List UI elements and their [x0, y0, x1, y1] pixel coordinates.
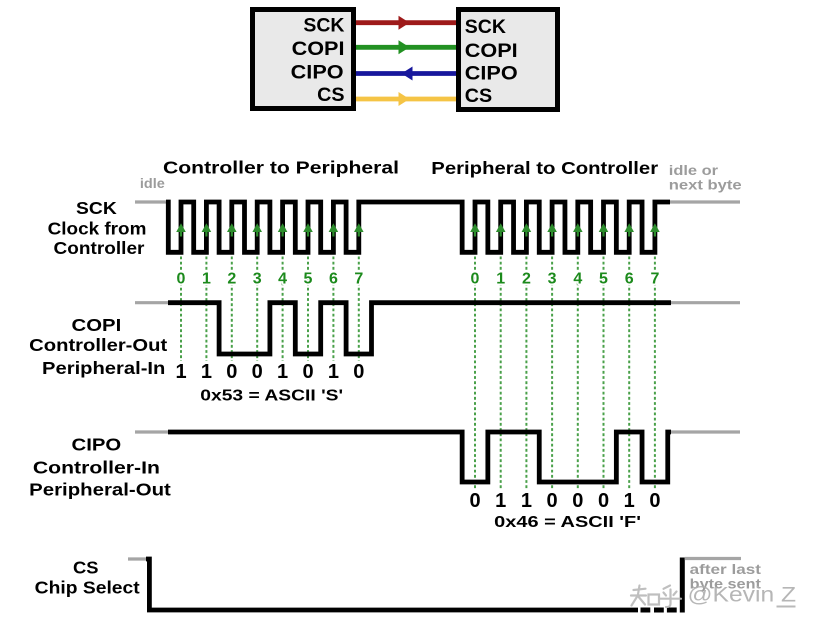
CIPO waveform 0x46 LSB-first: [168, 432, 671, 482]
svg-text:COPI: COPI: [292, 39, 345, 60]
svg-text:1: 1: [202, 270, 211, 287]
clock sample dashed lines byte 1: [181, 257, 359, 362]
CS low dashed continuation: [641, 608, 677, 613]
wire CIPO peripheral to controller (navy arrow, points left): [356, 71, 456, 76]
CS rising edge after last byte: [680, 558, 685, 613]
svg-text:1: 1: [521, 490, 532, 512]
svg-text:Controller to Peripheral: Controller to Peripheral: [163, 158, 399, 178]
svg-text:SCK: SCK: [465, 17, 506, 38]
svg-text:idle or: idle or: [669, 163, 719, 178]
CIPO idle gray lead-in: [135, 430, 168, 433]
SCK waveform (two 8-pulse bursts): [166, 202, 670, 252]
svg-text:4: 4: [278, 270, 287, 287]
svg-text:2: 2: [227, 270, 236, 287]
svg-text:1: 1: [328, 361, 339, 383]
svg-text:0: 0: [598, 490, 609, 512]
svg-text:0: 0: [177, 270, 186, 287]
svg-text:0x46 = ASCII 'F': 0x46 = ASCII 'F': [494, 514, 641, 531]
svg-text:6: 6: [329, 270, 338, 287]
svg-text:Clock from: Clock from: [48, 219, 147, 239]
svg-text:1: 1: [624, 490, 635, 512]
svg-text:6: 6: [625, 270, 634, 287]
svg-text:7: 7: [354, 270, 363, 287]
svg-text:SCK: SCK: [303, 16, 344, 37]
svg-text:Peripheral-In: Peripheral-In: [42, 358, 165, 378]
CIPO idle gray tail: [671, 430, 740, 433]
COPI waveform 0x53 LSB-first: [168, 303, 671, 354]
clock rising edge arrows byte 2: [470, 223, 660, 236]
svg-text:3: 3: [548, 270, 557, 287]
CS waveform falling edge and low level: [146, 559, 638, 610]
svg-text:0: 0: [649, 490, 660, 512]
svg-text:CS: CS: [465, 86, 492, 107]
svg-text:0: 0: [226, 361, 237, 383]
svg-text:5: 5: [304, 270, 313, 287]
svg-text:1: 1: [175, 361, 186, 383]
svg-text:0: 0: [547, 490, 558, 512]
svg-text:0: 0: [469, 490, 480, 512]
wire CS controller to peripheral (yellow arrow): [356, 97, 456, 102]
svg-text:CIPO: CIPO: [72, 434, 122, 454]
svg-text:CIPO: CIPO: [291, 62, 344, 83]
svg-text:1: 1: [496, 270, 505, 287]
wire COPI controller to peripheral (green arrow): [356, 45, 456, 50]
svg-text:next byte: next byte: [669, 178, 742, 193]
svg-text:@Kevin Z: @Kevin Z: [688, 583, 797, 607]
watermark zhihu glyphs: [631, 586, 681, 608]
clock sample dashed lines byte 2: [475, 257, 655, 490]
svg-text:0: 0: [302, 361, 313, 383]
peripheral box: [459, 10, 558, 110]
svg-text:3: 3: [253, 270, 262, 287]
svg-text:2: 2: [522, 270, 531, 287]
SCK idle gray tail: [670, 200, 740, 203]
svg-text:Controller: Controller: [54, 238, 145, 258]
controller box: [253, 10, 354, 109]
svg-text:5: 5: [599, 270, 608, 287]
svg-text:Controller-Out: Controller-Out: [29, 335, 167, 355]
svg-text:COPI: COPI: [465, 41, 518, 62]
COPI idle gray tail: [671, 301, 740, 304]
svg-text:Chip Select: Chip Select: [35, 577, 140, 597]
svg-text:1: 1: [277, 361, 288, 383]
svg-text:idle: idle: [140, 176, 165, 191]
svg-text:SCK: SCK: [76, 198, 117, 218]
svg-text:Controller-In: Controller-In: [33, 458, 160, 478]
watermark underline under Z: [777, 606, 796, 608]
svg-text:CIPO: CIPO: [465, 64, 518, 85]
svg-text:0: 0: [353, 361, 364, 383]
svg-text:0: 0: [471, 270, 480, 287]
svg-text:7: 7: [650, 270, 659, 287]
svg-text:0: 0: [572, 490, 583, 512]
svg-text:CS: CS: [317, 85, 344, 106]
svg-text:0x53 = ASCII 'S': 0x53 = ASCII 'S': [200, 388, 343, 405]
svg-text:0: 0: [252, 361, 263, 383]
svg-text:Peripheral to Controller: Peripheral to Controller: [431, 158, 658, 178]
CS idle gray stub: [128, 557, 146, 560]
clock rising edge arrows byte 1: [176, 223, 363, 236]
svg-text:COPI: COPI: [72, 315, 122, 335]
wire SCK controller to peripheral (dark red arrow): [356, 20, 456, 25]
svg-text:4: 4: [573, 270, 582, 287]
svg-text:after last: after last: [690, 562, 762, 577]
svg-text:1: 1: [495, 490, 506, 512]
CS idle gray tail: [685, 557, 741, 560]
svg-text:CS: CS: [73, 557, 99, 577]
svg-text:1: 1: [201, 361, 212, 383]
COPI idle gray lead-in: [135, 301, 170, 304]
SCK idle gray lead-in: [135, 200, 167, 203]
svg-text:Peripheral-Out: Peripheral-Out: [29, 480, 171, 500]
